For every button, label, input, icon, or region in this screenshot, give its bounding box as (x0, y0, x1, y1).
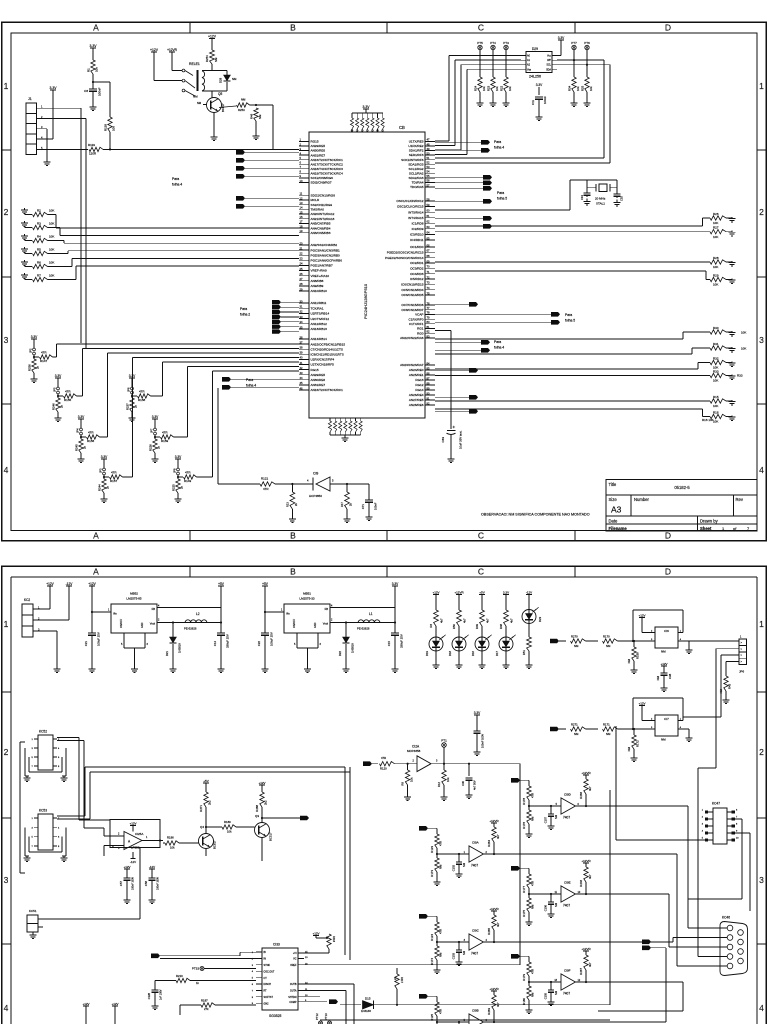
svg-text:67: 67 (427, 249, 430, 253)
svg-text:Vin: Vin (113, 612, 117, 616)
svg-text:CI9B: CI9B (472, 1009, 479, 1013)
svg-text:R4: R4 (37, 234, 41, 238)
svg-text:PIC24HJ128GP510: PIC24HJ128GP510 (363, 283, 368, 319)
svg-text:RG15: RG15 (311, 368, 319, 372)
svg-text:AN26/RE4: AN26/RE4 (409, 393, 424, 397)
svg-text:10K: 10K (713, 379, 718, 383)
svg-text:Number: Number (634, 497, 649, 502)
svg-text:D18: D18 (448, 651, 452, 657)
svg-text:10k: 10k (446, 777, 450, 782)
svg-text:PT33: PT33 (192, 967, 200, 971)
svg-text:2k2: 2k2 (264, 800, 268, 805)
svg-text:R46: R46 (250, 113, 254, 119)
svg-text:B: B (290, 22, 296, 32)
svg-text:AN18/T4CK/T8CK/RC3: AN18/T4CK/T8CK/RC3 (311, 167, 344, 171)
svg-text:4n7 50V: 4n7 50V (473, 780, 477, 790)
svg-text:C: C (478, 566, 484, 576)
svg-text:4k7: 4k7 (588, 786, 592, 791)
svg-text:R178: R178 (522, 798, 526, 805)
svg-text:Size: Size (609, 497, 618, 502)
svg-text:78: 78 (427, 311, 430, 315)
svg-text:NM: NM (627, 746, 631, 751)
svg-text:PT12: PT12 (315, 1013, 319, 1020)
svg-text:R3: R3 (37, 221, 41, 225)
svg-text:KC2: KC2 (24, 598, 30, 602)
svg-text:R33: R33 (737, 374, 743, 378)
svg-text:U2TX/CN18/RF5: U2TX/CN18/RF5 (311, 363, 335, 367)
svg-text:AN21/INT2/RA13: AN21/INT2/RA13 (311, 217, 335, 221)
svg-text:A: A (93, 530, 99, 540)
svg-text:120R: 120R (89, 152, 97, 156)
svg-text:10K: 10K (49, 260, 54, 264)
svg-text:VREF+/RA10: VREF+/RA10 (311, 274, 330, 278)
svg-text:L1: L1 (369, 612, 373, 616)
svg-text:OC1/RD0: OC1/RD0 (410, 245, 424, 249)
svg-text:OC5/CN13/RD4: OC5/CN13/RD4 (401, 288, 423, 292)
svg-text:AN10/RB10: AN10/RB10 (311, 289, 328, 293)
svg-text:AN20/INT1/RA12: AN20/INT1/RA12 (311, 212, 335, 216)
svg-text:37: 37 (300, 340, 303, 344)
svg-text:45: 45 (300, 381, 303, 385)
svg-text:folha 4: folha 4 (494, 346, 504, 350)
svg-text:R256: R256 (28, 364, 32, 371)
svg-text:NM: NM (462, 863, 466, 867)
svg-text:AN2/SS1/CN4/RB2: AN2/SS1/CN4/RB2 (311, 243, 338, 247)
svg-text:R174: R174 (430, 958, 434, 965)
svg-text:47R: 47R (439, 929, 443, 934)
svg-text:C1RX/RF0: C1RX/RF0 (409, 317, 424, 321)
svg-text:10K: 10K (713, 420, 718, 424)
svg-text:AN4/CN6/RB4: AN4/CN6/RB4 (311, 226, 331, 230)
svg-text:4k7: 4k7 (588, 962, 592, 967)
svg-text:NM: NM (554, 991, 558, 995)
svg-text:16: 16 (300, 215, 303, 219)
svg-text:SCK1/INT0/RF6: SCK1/INT0/RF6 (401, 158, 424, 162)
svg-text:36: 36 (300, 335, 303, 339)
svg-text:2: 2 (759, 747, 764, 757)
svg-text:D28: D28 (219, 77, 223, 83)
svg-text:R119: R119 (88, 143, 95, 147)
svg-text:R147: R147 (40, 359, 48, 363)
svg-text:RG15: RG15 (311, 140, 319, 144)
svg-text:PT4: PT4 (490, 41, 496, 45)
svg-text:90: 90 (427, 391, 430, 395)
svg-text:SER1/RF3: SER1/RF3 (409, 153, 424, 157)
svg-text:KC52: KC52 (39, 730, 47, 734)
svg-text:330uF 25V: 330uF 25V (226, 634, 230, 648)
svg-text:19: 19 (300, 229, 303, 233)
svg-text:R6: R6 (37, 260, 41, 264)
svg-text:R13: R13 (286, 502, 290, 507)
svg-text:1N4148: 1N4148 (361, 1009, 371, 1013)
svg-text:-: - (112, 834, 113, 838)
svg-text:R118: R118 (104, 124, 108, 131)
svg-text:10: 10 (300, 179, 303, 183)
svg-text:AN27/RE5: AN27/RE5 (409, 398, 424, 402)
svg-text:Para: Para (246, 378, 253, 382)
svg-text:51: 51 (427, 156, 430, 160)
svg-text:folha 4: folha 4 (494, 146, 504, 150)
svg-text:R253: R253 (238, 108, 245, 112)
svg-text:RG14: RG14 (415, 388, 423, 392)
svg-text:+: + (112, 845, 114, 849)
svg-text:D21: D21 (165, 651, 169, 657)
svg-text:R6: R6 (429, 624, 433, 628)
svg-text:Date: Date (609, 518, 619, 523)
svg-text:84: 84 (427, 361, 430, 365)
svg-text:NM: NM (531, 816, 535, 821)
svg-text:Q3: Q3 (255, 814, 259, 818)
svg-text:R2: R2 (37, 208, 41, 212)
svg-text:1nF 100V: 1nF 100V (160, 989, 163, 1000)
svg-text:PT7: PT7 (571, 41, 577, 45)
svg-text:47R: 47R (111, 471, 117, 475)
svg-text:7407: 7407 (563, 992, 570, 996)
svg-text:Para: Para (494, 140, 501, 144)
svg-text:MB51: MB51 (303, 592, 311, 596)
svg-text:AN24/RE0: AN24/RE0 (409, 368, 424, 372)
svg-text:77: 77 (427, 306, 430, 310)
svg-text:7407: 7407 (563, 816, 570, 820)
svg-text:R172: R172 (636, 740, 640, 747)
svg-text:SYNC: SYNC (264, 964, 271, 967)
svg-text:31: 31 (300, 305, 303, 309)
svg-text:2k2: 2k2 (208, 800, 212, 805)
svg-text:folha 4: folha 4 (172, 183, 182, 187)
svg-text:U2CTS/RF12: U2CTS/RF12 (311, 317, 330, 321)
svg-text:R180: R180 (522, 998, 526, 1005)
svg-text:3: 3 (4, 335, 9, 345)
svg-text:29: 29 (300, 287, 303, 291)
svg-text:R176: R176 (522, 822, 526, 829)
svg-text:1: 1 (4, 81, 9, 91)
svg-text:R244: R244 (98, 484, 102, 491)
svg-text:AN16/T2CK/T6CK/RC1: AN16/T2CK/T6CK/RC1 (311, 388, 344, 392)
svg-text:7407: 7407 (471, 952, 478, 956)
svg-text:R17: R17 (340, 502, 344, 507)
svg-text:7407: 7407 (471, 864, 478, 868)
svg-text:OUTB: OUTB (290, 983, 297, 986)
svg-text:IC2/RD9: IC2/RD9 (412, 227, 424, 231)
svg-text:folha 4: folha 4 (246, 384, 256, 388)
svg-text:10k: 10k (589, 86, 593, 91)
svg-text:NM: NM (197, 101, 201, 105)
svg-text:R246: R246 (52, 403, 56, 410)
svg-text:C71: C71 (361, 504, 365, 510)
svg-text:NM: NM (574, 644, 579, 648)
svg-text:17: 17 (300, 220, 303, 224)
svg-text:VCAP: VCAP (415, 313, 423, 317)
svg-text:R186: R186 (167, 836, 174, 840)
svg-text:D22: D22 (338, 651, 342, 657)
svg-text:62: 62 (427, 220, 430, 224)
svg-text:R254: R254 (205, 55, 209, 62)
svg-text:54: 54 (427, 170, 430, 174)
svg-text:R171: R171 (603, 722, 610, 726)
svg-text:10K: 10K (713, 265, 718, 269)
svg-text:INT3/RA14: INT3/RA14 (408, 210, 424, 214)
svg-text:HCP4850: HCP4850 (309, 494, 322, 498)
svg-text:68: 68 (427, 254, 430, 258)
svg-text:R267: R267 (579, 968, 583, 975)
svg-text:AN25/RE1: AN25/RE1 (409, 373, 424, 377)
svg-text:NM: NM (656, 675, 660, 680)
svg-text:4: 4 (759, 1003, 764, 1013)
svg-text:R124: R124 (430, 934, 434, 941)
svg-text:AN14/RB14: AN14/RB14 (311, 337, 328, 341)
svg-text:R173: R173 (430, 870, 434, 877)
svg-text:24: 24 (300, 262, 303, 266)
svg-text:R16 10K: R16 10K (702, 418, 714, 422)
svg-text:10K: 10K (713, 404, 718, 408)
svg-text:OC7/CN15/RD6: OC7/CN15/RD6 (401, 303, 423, 307)
svg-text:12: 12 (300, 196, 303, 200)
svg-text:-12V: -12V (130, 860, 136, 864)
svg-text:R271: R271 (199, 805, 203, 812)
svg-text:R7: R7 (37, 273, 41, 277)
svg-text:47R: 47R (41, 351, 47, 355)
svg-text:4k7: 4k7 (440, 618, 444, 623)
svg-text:10k: 10k (95, 67, 99, 72)
svg-text:27: 27 (300, 277, 303, 281)
svg-text:100nF 100V: 100nF 100V (132, 877, 135, 890)
svg-text:FB: FB (325, 607, 329, 611)
svg-text:OC4/RD3: OC4/RD3 (410, 272, 424, 276)
svg-text:C102: C102 (452, 864, 456, 871)
svg-text:R288: R288 (255, 805, 259, 812)
svg-text:79: 79 (427, 315, 430, 319)
svg-text:CI6: CI6 (664, 629, 669, 633)
svg-text:U1TX/RE3: U1TX/RE3 (409, 140, 424, 144)
svg-text:Para: Para (497, 191, 504, 195)
svg-text:R50: R50 (452, 624, 456, 630)
svg-text:C: C (478, 530, 484, 540)
svg-text:IC5/RD12: IC5/RD12 (410, 277, 424, 281)
svg-text:R16: R16 (713, 410, 719, 414)
svg-text:NM: NM (606, 732, 611, 736)
svg-text:47R: 47R (381, 756, 386, 760)
svg-text:61: 61 (427, 214, 430, 218)
svg-text:TDI/RA4: TDI/RA4 (412, 181, 424, 185)
svg-text:NM: NM (214, 57, 218, 62)
svg-text:33: 33 (300, 315, 303, 319)
svg-text:20 MHz: 20 MHz (595, 197, 606, 201)
svg-text:Para: Para (494, 340, 501, 344)
svg-text:IC8/CN21/RD15/U1RTS: IC8/CN21/RD15/U1RTS (311, 352, 344, 356)
svg-text:R45: R45 (728, 683, 732, 689)
svg-text:D23: D23 (538, 616, 542, 622)
svg-text:SDA2/RA3: SDA2/RA3 (409, 176, 424, 180)
svg-text:GN2: GN2 (264, 1002, 270, 1005)
svg-text:D: D (665, 566, 671, 576)
svg-text:10K: 10K (49, 234, 54, 238)
svg-text:R5: R5 (37, 247, 41, 251)
svg-text:CB: CB (399, 125, 405, 130)
svg-text:C1TX/RF1: C1TX/RF1 (409, 322, 424, 326)
svg-text:AN12/RB12: AN12/RB12 (311, 322, 328, 326)
svg-text:CI9E: CI9E (564, 881, 571, 885)
svg-text:D17: D17 (495, 651, 499, 657)
svg-text:60: 60 (427, 208, 430, 212)
svg-text:AN11/RB11: AN11/RB11 (311, 301, 327, 305)
svg-text:R226: R226 (149, 444, 153, 451)
svg-text:C105: C105 (544, 992, 548, 999)
svg-text:R25: R25 (581, 85, 585, 91)
svg-text:TDO/RA5: TDO/RA5 (410, 185, 424, 189)
svg-text:A3: A3 (611, 505, 622, 515)
svg-text:OC2/RD1: OC2/RD1 (410, 261, 424, 265)
svg-text:J1: J1 (28, 97, 32, 101)
svg-text:L2: L2 (196, 612, 200, 616)
svg-text:10K: 10K (49, 221, 54, 225)
svg-text:PGC1/AN6/OCFA/RB6: PGC1/AN6/OCFA/RB6 (311, 258, 343, 262)
svg-text:CI9A: CI9A (472, 841, 479, 845)
svg-text:59: 59 (427, 203, 430, 207)
svg-text:10k: 10k (482, 86, 486, 91)
svg-text:OSC2/CLKO/RC15: OSC2/CLKO/RC15 (397, 205, 424, 209)
svg-text:100uF 25V: 100uF 25V (270, 632, 274, 646)
svg-text:Vout: Vout (150, 622, 155, 626)
svg-text:73: 73 (427, 281, 430, 285)
svg-text:10k: 10k (508, 86, 512, 91)
svg-text:KC51: KC51 (29, 909, 37, 913)
svg-text:R116: R116 (332, 936, 336, 943)
svg-text:3: 3 (759, 875, 764, 885)
svg-text:R158: R158 (138, 398, 146, 402)
svg-text:Filename: Filename (609, 526, 628, 531)
svg-text:91: 91 (427, 396, 430, 400)
svg-text:4k7: 4k7 (486, 618, 490, 623)
svg-text:R51: R51 (522, 650, 526, 656)
svg-text:47R: 47R (88, 431, 94, 435)
svg-text:R24: R24 (474, 85, 478, 91)
svg-text:10K: 10K (713, 283, 718, 287)
svg-text:SOFTST: SOFTST (264, 996, 274, 999)
svg-text:RELE1: RELE1 (189, 62, 200, 66)
svg-text:R189: R189 (224, 820, 231, 824)
svg-text:47R: 47R (162, 431, 168, 435)
svg-text:47R: 47R (531, 793, 535, 798)
svg-text:Drawn by: Drawn by (700, 518, 719, 523)
svg-text:1: 1 (4, 619, 9, 629)
svg-text:Title: Title (609, 482, 617, 487)
svg-text:VREF: VREF (290, 964, 297, 967)
svg-text:28: 28 (300, 282, 303, 286)
svg-text:OC3/RD2: OC3/RD2 (410, 266, 424, 270)
svg-text:56: 56 (427, 179, 430, 183)
svg-text:IB: IB (264, 951, 267, 954)
svg-text:Vout: Vout (323, 622, 328, 626)
svg-text:C38: C38 (668, 673, 672, 679)
svg-text:R31: R31 (713, 342, 719, 346)
svg-text:R33: R33 (713, 369, 719, 373)
svg-text:88: 88 (427, 381, 430, 385)
svg-text:R1: R1 (87, 68, 91, 72)
svg-text:C15: C15 (387, 641, 391, 647)
svg-text:30: 30 (300, 299, 303, 303)
svg-text:RG12: RG12 (415, 383, 423, 387)
svg-text:C57: C57 (119, 881, 123, 887)
svg-text:ON/OFF: ON/OFF (120, 618, 123, 628)
svg-text:100nF: 100nF (98, 87, 102, 96)
svg-text:Sheet: Sheet (700, 526, 712, 531)
svg-text:47R: 47R (139, 390, 145, 394)
svg-text:AN19/T5CK/T9CK/RC4: AN19/T5CK/T9CK/RC4 (311, 172, 344, 176)
svg-text:R187: R187 (201, 999, 208, 1003)
svg-text:AN29/RE5: AN29/RE5 (311, 144, 326, 148)
svg-text:RG13: RG13 (415, 378, 423, 382)
svg-text:AN31/RE7: AN31/RE7 (311, 383, 326, 387)
svg-text:23: 23 (300, 257, 303, 261)
svg-text:35: 35 (300, 325, 303, 329)
svg-text:CI9F: CI9F (564, 969, 571, 973)
svg-text:SDA1/RG3: SDA1/RG3 (408, 162, 424, 166)
svg-text:2: 2 (4, 207, 9, 217)
svg-text:38: 38 (300, 346, 303, 350)
svg-text:AN3/CN5/RB3: AN3/CN5/RB3 (311, 231, 331, 235)
svg-text:Para: Para (565, 313, 572, 317)
svg-text:85: 85 (427, 366, 430, 370)
svg-text:SDI2/CN9/RG7: SDI2/CN9/RG7 (311, 181, 332, 185)
svg-text:R245: R245 (75, 444, 79, 451)
svg-text:Q5: Q5 (218, 92, 222, 96)
svg-text:R263: R263 (487, 1008, 491, 1015)
svg-text:PE-52626: PE-52626 (357, 627, 370, 631)
svg-text:LM2575-33: LM2575-33 (299, 597, 315, 601)
svg-text:IC4/RD11: IC4/RD11 (410, 238, 424, 242)
svg-text:44: 44 (300, 376, 303, 380)
svg-text:C128: C128 (147, 992, 151, 999)
svg-text:43: 43 (300, 371, 303, 375)
svg-text:05182-5: 05182-5 (674, 485, 690, 490)
svg-text:U2RX/CN17/RF4: U2RX/CN17/RF4 (311, 358, 335, 362)
svg-text:R155: R155 (64, 398, 72, 402)
svg-text:NM: NM (574, 732, 579, 736)
svg-text:NM: NM (232, 77, 237, 81)
svg-text:RT: RT (264, 990, 268, 993)
svg-text:A: A (93, 22, 99, 32)
svg-text:SCK2/CN8/RG6: SCK2/CN8/RG6 (311, 176, 334, 180)
svg-text:PT13: PT13 (324, 1013, 328, 1020)
svg-text:3: 3 (759, 335, 764, 345)
svg-text:NM: NM (606, 644, 611, 648)
svg-text:AN17/T3CK/T7CK/RC2: AN17/T3CK/T7CK/RC2 (311, 162, 344, 166)
svg-text:C58: C58 (144, 881, 148, 887)
svg-text:A: A (93, 566, 99, 576)
svg-text:AN8/RB8: AN8/RB8 (311, 279, 324, 283)
svg-text:1N5819: 1N5819 (178, 643, 182, 653)
svg-text:C21: C21 (84, 641, 88, 647)
svg-text:JP5: JP5 (53, 387, 57, 392)
svg-text:PT1: PT1 (441, 739, 447, 743)
svg-text:NM: NM (439, 952, 443, 957)
svg-text:10K: 10K (741, 347, 746, 351)
svg-text:INT4/RA15: INT4/RA15 (408, 216, 424, 220)
svg-text:47R: 47R (65, 390, 71, 394)
svg-text:JP6: JP6 (739, 670, 745, 674)
svg-text:PGD1/AN7/RB7: PGD1/AN7/RB7 (311, 264, 333, 268)
svg-text:JP2: JP2 (29, 348, 33, 353)
svg-text:SCL1/RG2: SCL1/RG2 (409, 167, 424, 171)
svg-text:OC8/CN16/RD7: OC8/CN16/RD7 (401, 308, 423, 312)
svg-text:WP: WP (547, 59, 551, 62)
svg-text:C103: C103 (452, 952, 456, 959)
svg-text:SDA1/RF2: SDA1/RF2 (409, 149, 424, 153)
svg-text:NM: NM (258, 114, 262, 119)
svg-text:NM: NM (531, 992, 535, 997)
svg-text:R177: R177 (522, 886, 526, 893)
svg-text:10K: 10K (49, 273, 54, 277)
